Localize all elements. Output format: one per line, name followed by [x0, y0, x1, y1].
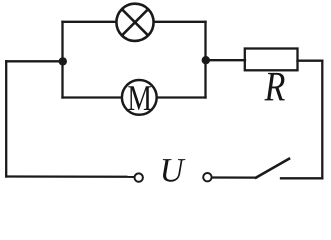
resistor R1 [245, 49, 298, 71]
wire: motor branch left [63, 96, 122, 98]
switch S1 blade [256, 159, 289, 178]
wire: left branch vertical [61, 22, 63, 98]
wire: bottom right [281, 177, 322, 179]
wire: motor branch right [158, 96, 206, 98]
wire: bottom left [6, 175, 134, 178]
wire: right rail [321, 61, 323, 179]
motor M1 [122, 80, 157, 115]
wire: right branch vertical [204, 22, 206, 98]
label U [163, 159, 186, 182]
wire: resistor to right rail [298, 60, 323, 62]
wire: switch lead [212, 176, 256, 178]
wire: top branch right [155, 21, 206, 23]
lamp L1 [116, 4, 153, 41]
wire: left rail [5, 61, 7, 176]
terminal circle right [203, 173, 211, 181]
label R [264, 73, 284, 101]
wire: right dot to resistor [206, 59, 246, 61]
wire: left dot to left rail [6, 60, 62, 62]
wire: top branch left [63, 21, 117, 23]
junction node left [59, 57, 67, 65]
terminal circle left [135, 173, 143, 181]
junction node right [202, 56, 210, 64]
